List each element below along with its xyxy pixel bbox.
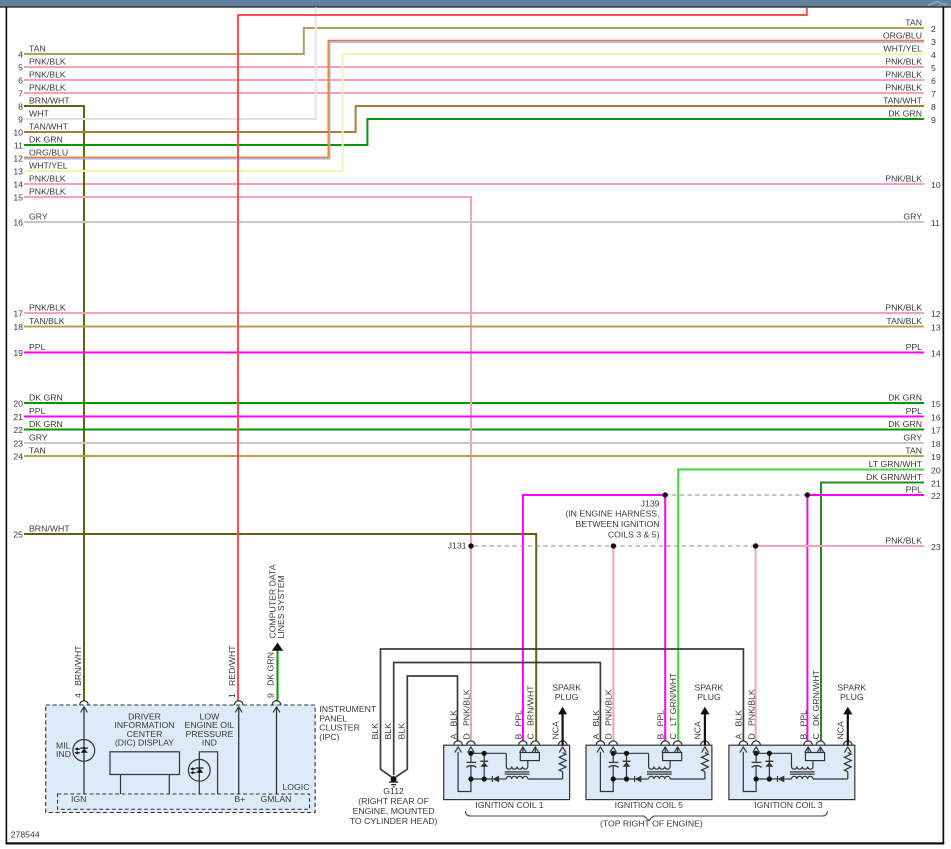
svg-text:PPL: PPL — [906, 484, 923, 494]
svg-text:BRN/WHT: BRN/WHT — [29, 523, 70, 533]
svg-text:18: 18 — [931, 439, 941, 449]
svg-text:(IN ENGINE HARNESS,: (IN ENGINE HARNESS, — [565, 509, 659, 519]
svg-text:9 DK GRN: 9 DK GRN — [266, 652, 276, 698]
svg-text:ORG/BLU: ORG/BLU — [29, 147, 68, 157]
svg-text:17: 17 — [13, 308, 23, 318]
svg-text:4: 4 — [18, 49, 23, 59]
svg-text:19: 19 — [13, 348, 23, 358]
svg-text:PLUG: PLUG — [840, 692, 864, 702]
svg-text:IGNITION COIL 1: IGNITION COIL 1 — [475, 800, 543, 810]
svg-text:ENGINE, MOUNTED: ENGINE, MOUNTED — [353, 806, 435, 816]
svg-text:NCA: NCA — [836, 721, 846, 740]
svg-text:21: 21 — [931, 479, 941, 489]
svg-text:WHT/YEL: WHT/YEL — [29, 160, 68, 170]
svg-text:C LT GRN/WHT: C LT GRN/WHT — [668, 672, 678, 739]
svg-text:23: 23 — [13, 438, 23, 448]
svg-text:PNK/BLK: PNK/BLK — [29, 173, 66, 183]
svg-text:TO CYLINDER HEAD): TO CYLINDER HEAD) — [350, 816, 438, 826]
svg-text:PNK/BLK: PNK/BLK — [885, 535, 922, 545]
svg-text:SPARK: SPARK — [552, 683, 581, 693]
svg-text:11: 11 — [14, 140, 23, 150]
svg-text:5: 5 — [931, 63, 936, 73]
svg-text:9: 9 — [18, 114, 23, 124]
svg-text:PNK/BLK: PNK/BLK — [29, 82, 66, 92]
svg-text:25: 25 — [13, 529, 23, 539]
svg-text:B PPL: B PPL — [656, 710, 666, 740]
svg-text:5: 5 — [18, 62, 23, 72]
svg-text:22: 22 — [13, 425, 23, 435]
svg-text:J131: J131 — [448, 541, 467, 551]
svg-text:DK GRN: DK GRN — [888, 419, 922, 429]
svg-text:PNK/BLK: PNK/BLK — [885, 56, 922, 66]
svg-text:(DIC) DISPLAY: (DIC) DISPLAY — [115, 738, 174, 748]
svg-text:A BLK: A BLK — [449, 710, 459, 740]
svg-text:12: 12 — [931, 309, 941, 319]
svg-text:PNK/BLK: PNK/BLK — [29, 186, 66, 196]
svg-text:17: 17 — [931, 426, 941, 436]
svg-text:BLK: BLK — [370, 723, 380, 740]
svg-text:2: 2 — [931, 24, 936, 34]
svg-text:B PPL: B PPL — [513, 710, 523, 740]
svg-text:15: 15 — [13, 192, 23, 202]
svg-text:21: 21 — [13, 412, 23, 422]
svg-text:14: 14 — [13, 179, 23, 189]
svg-text:DK GRN: DK GRN — [29, 134, 63, 144]
svg-text:TAN/WHT: TAN/WHT — [883, 95, 923, 105]
svg-text:BRN/WHT: BRN/WHT — [29, 95, 70, 105]
svg-text:18: 18 — [13, 322, 23, 332]
svg-text:10: 10 — [13, 127, 23, 137]
svg-text:PPL: PPL — [906, 342, 923, 352]
svg-text:16: 16 — [931, 413, 941, 423]
svg-text:LOGIC: LOGIC — [282, 782, 309, 792]
svg-text:IGN: IGN — [71, 794, 86, 804]
svg-text:PNK/BLK: PNK/BLK — [885, 69, 922, 79]
svg-text:PNK/BLK: PNK/BLK — [885, 302, 922, 312]
svg-text:GRY: GRY — [903, 211, 922, 221]
svg-text:8: 8 — [18, 101, 23, 111]
svg-text:19: 19 — [931, 452, 941, 462]
svg-text:TAN: TAN — [29, 445, 46, 455]
svg-text:LINES SYSTEM: LINES SYSTEM — [276, 575, 286, 638]
svg-text:TAN/BLK: TAN/BLK — [886, 316, 922, 326]
svg-text:TAN/WHT: TAN/WHT — [29, 121, 69, 131]
svg-text:SPARK: SPARK — [694, 683, 723, 693]
svg-text:23: 23 — [931, 542, 941, 552]
svg-text:12: 12 — [13, 153, 23, 163]
svg-text:TAN: TAN — [905, 445, 922, 455]
svg-text:(IPC): (IPC) — [319, 732, 339, 742]
svg-text:4 BRN/WHT: 4 BRN/WHT — [73, 645, 83, 698]
svg-text:13: 13 — [13, 166, 23, 176]
svg-text:GRY: GRY — [903, 432, 922, 442]
svg-text:PNK/BLK: PNK/BLK — [29, 69, 66, 79]
svg-text:SPARK: SPARK — [837, 683, 866, 693]
svg-text:11: 11 — [931, 218, 940, 228]
svg-text:PNK/BLK: PNK/BLK — [885, 82, 922, 92]
svg-text:DK GRN: DK GRN — [888, 108, 922, 118]
svg-text:G112: G112 — [383, 786, 404, 796]
svg-text:1 RED/WHT: 1 RED/WHT — [227, 645, 237, 698]
svg-text:PLUG: PLUG — [697, 692, 721, 702]
svg-text:J139: J139 — [641, 498, 660, 508]
svg-text:22: 22 — [931, 491, 941, 501]
svg-text:(RIGHT REAR OF: (RIGHT REAR OF — [358, 796, 429, 806]
svg-text:C DK GRN/WHT: C DK GRN/WHT — [811, 669, 821, 739]
svg-text:DK GRN: DK GRN — [29, 392, 63, 402]
svg-text:ORG/BLU: ORG/BLU — [883, 30, 922, 40]
svg-text:278544: 278544 — [11, 830, 40, 840]
svg-text:BETWEEN IGNITION: BETWEEN IGNITION — [576, 519, 660, 529]
svg-text:PNK/BLK: PNK/BLK — [885, 173, 922, 183]
svg-text:COILS 3 & 5): COILS 3 & 5) — [608, 530, 660, 540]
svg-text:BLK: BLK — [383, 723, 393, 740]
svg-text:9: 9 — [931, 115, 936, 125]
svg-text:10: 10 — [931, 180, 941, 190]
svg-text:IGNITION COIL 5: IGNITION COIL 5 — [615, 800, 683, 810]
svg-text:13: 13 — [931, 323, 941, 333]
svg-text:7: 7 — [931, 89, 936, 99]
svg-text:14: 14 — [931, 349, 941, 359]
svg-text:NCA: NCA — [550, 721, 560, 740]
svg-text:4: 4 — [931, 50, 936, 60]
svg-text:PPL: PPL — [906, 406, 923, 416]
svg-text:7: 7 — [18, 88, 23, 98]
svg-text:PPL: PPL — [29, 342, 46, 352]
svg-text:TAN/BLK: TAN/BLK — [29, 316, 65, 326]
svg-text:GMLAN: GMLAN — [261, 794, 292, 804]
svg-text:BLK: BLK — [397, 723, 407, 740]
svg-text:A BLK: A BLK — [591, 710, 601, 740]
svg-text:3: 3 — [931, 37, 936, 47]
svg-text:GRY: GRY — [29, 211, 48, 221]
svg-text:IGNITION COIL 3: IGNITION COIL 3 — [754, 800, 822, 810]
svg-text:WHT/YEL: WHT/YEL — [883, 43, 922, 53]
svg-text:8: 8 — [931, 102, 936, 112]
svg-text:20: 20 — [931, 466, 941, 476]
svg-text:15: 15 — [931, 399, 941, 409]
svg-text:(TOP RIGHT OF ENGINE): (TOP RIGHT OF ENGINE) — [600, 819, 703, 829]
svg-text:16: 16 — [13, 217, 23, 227]
svg-text:LT GRN/WHT: LT GRN/WHT — [869, 459, 923, 469]
svg-text:6: 6 — [931, 76, 936, 86]
svg-text:PNK/BLK: PNK/BLK — [29, 56, 66, 66]
svg-text:D PNK/BLK: D PNK/BLK — [461, 689, 471, 739]
svg-text:TAN: TAN — [905, 17, 922, 27]
svg-text:PLUG: PLUG — [555, 692, 579, 702]
svg-text:NCA: NCA — [693, 721, 703, 740]
svg-text:DK GRN: DK GRN — [888, 392, 922, 402]
svg-text:24: 24 — [13, 451, 23, 461]
svg-text:A BLK: A BLK — [734, 710, 744, 740]
svg-text:PNK/BLK: PNK/BLK — [29, 302, 66, 312]
svg-text:IND: IND — [56, 749, 71, 759]
svg-text:DK GRN/WHT: DK GRN/WHT — [866, 472, 923, 482]
svg-text:IND: IND — [202, 738, 217, 748]
svg-text:TAN: TAN — [29, 43, 46, 53]
svg-text:PPL: PPL — [29, 406, 46, 416]
svg-text:DK GRN: DK GRN — [29, 419, 63, 429]
svg-text:D PNK/BLK: D PNK/BLK — [747, 689, 757, 739]
svg-text:B PPL: B PPL — [799, 710, 809, 740]
svg-text:B+: B+ — [234, 794, 245, 804]
svg-text:GRY: GRY — [29, 432, 48, 442]
svg-text:6: 6 — [18, 75, 23, 85]
svg-text:20: 20 — [13, 398, 23, 408]
svg-text:WHT: WHT — [29, 108, 49, 118]
svg-text:C BRN/WHT: C BRN/WHT — [526, 685, 536, 740]
svg-text:D PNK/BLK: D PNK/BLK — [604, 689, 614, 739]
